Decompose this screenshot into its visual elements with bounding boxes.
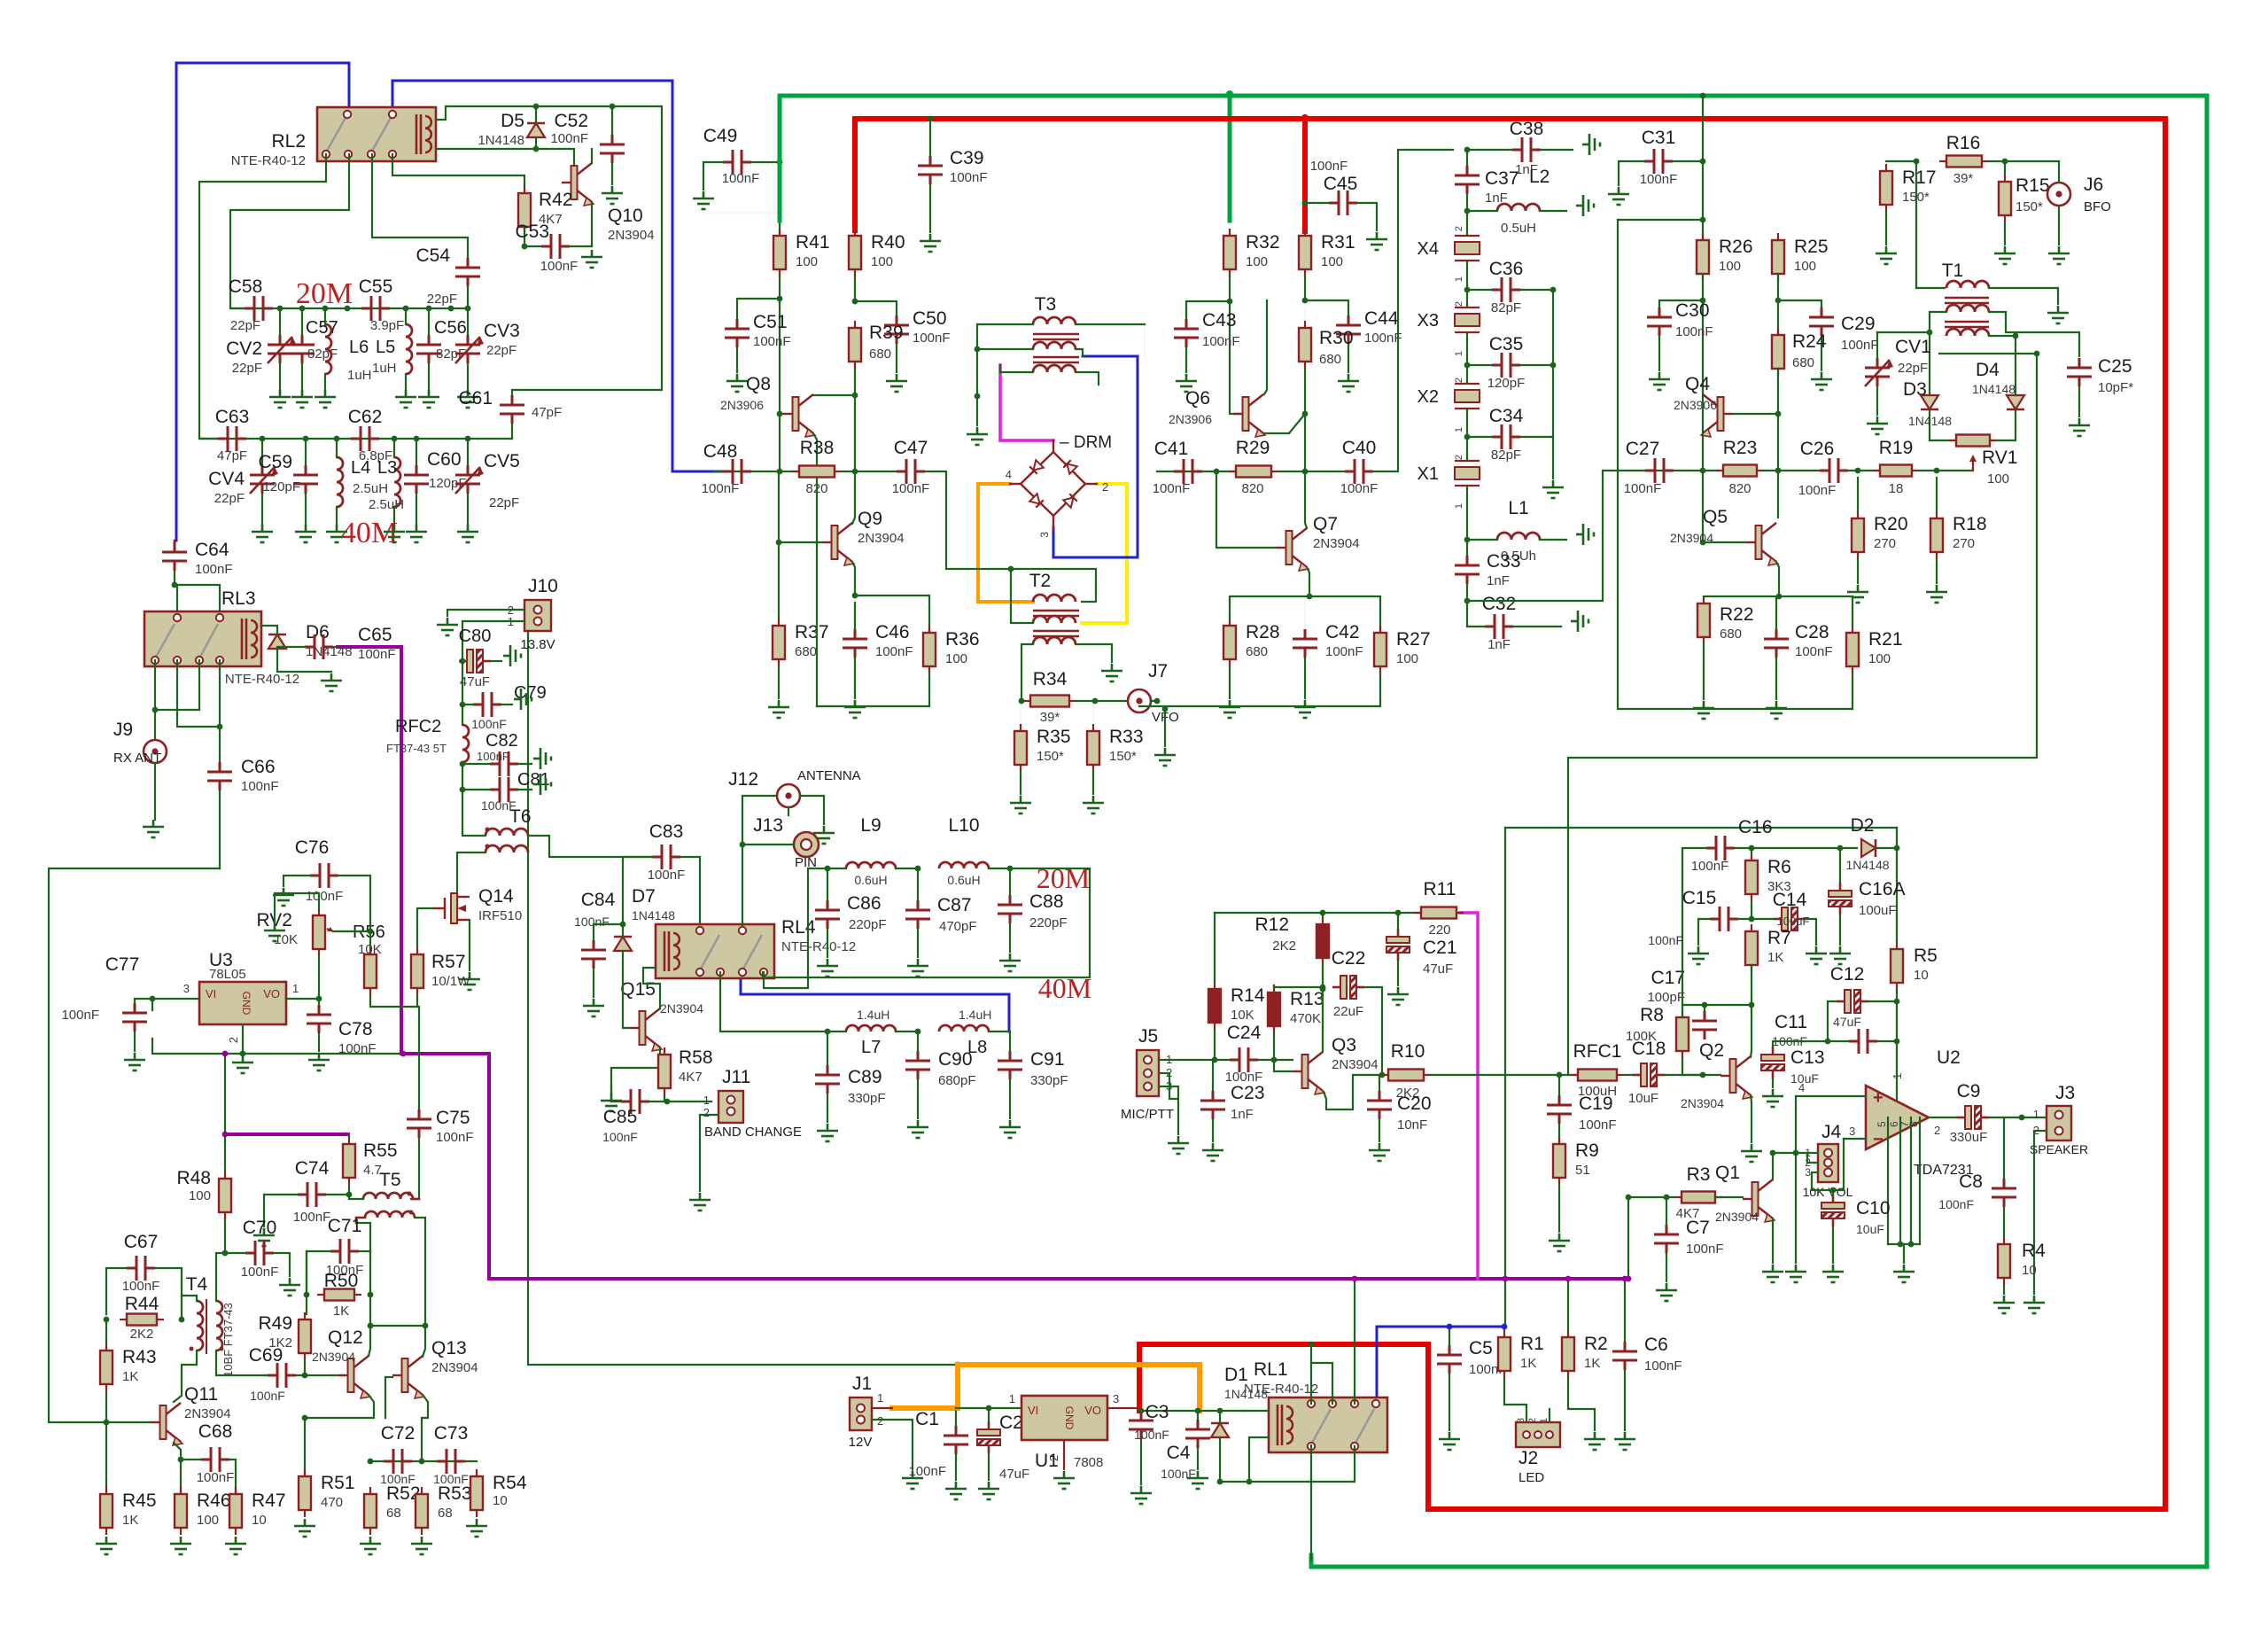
potentiometer RV1 xyxy=(1949,440,1956,441)
svg-text:L1: L1 xyxy=(1508,498,1528,518)
wire J10 pin2 to ground xyxy=(447,610,524,616)
diode D5 xyxy=(527,123,545,137)
svg-text:R26: R26 xyxy=(1719,237,1753,257)
svg-text:R2: R2 xyxy=(1584,1334,1608,1354)
resistor R6 xyxy=(1751,853,1752,860)
svg-text:470K: 470K xyxy=(1290,1011,1321,1026)
wire T3 middle left xyxy=(977,348,1033,350)
resistor R50 xyxy=(317,1294,324,1296)
svg-text:R13: R13 xyxy=(1290,989,1324,1009)
svg-text:2N3904: 2N3904 xyxy=(184,1406,231,1421)
wire R34 to J7 xyxy=(1076,700,1127,702)
svg-text:100nF: 100nF xyxy=(1798,483,1837,498)
grounds R45 R46 R47 xyxy=(96,1537,117,1554)
wire T3 middle right blue tap xyxy=(1076,349,1083,356)
wire C64 to RL3 pins xyxy=(175,585,220,613)
transformer T4 xyxy=(197,1301,203,1351)
svg-text:47uF: 47uF xyxy=(460,674,490,689)
svg-text:C76: C76 xyxy=(295,837,330,858)
wire R16 node to T1 xyxy=(1916,161,1945,288)
wire Q1 collector xyxy=(1773,1153,1796,1179)
resistor R33 xyxy=(1092,724,1094,731)
svg-text:330pF: 330pF xyxy=(1030,1073,1068,1088)
variable capacitor CV5 xyxy=(455,465,480,494)
resistor R29 xyxy=(1229,471,1236,472)
wire T2 bottom right to ground xyxy=(1076,644,1112,662)
svg-text:R7: R7 xyxy=(1767,928,1791,948)
svg-text:VO: VO xyxy=(263,987,280,1000)
svg-text:L5: L5 xyxy=(376,338,395,357)
svg-text:100nF: 100nF xyxy=(471,717,507,731)
wire Q10 collector xyxy=(591,149,593,163)
svg-text:220pF: 220pF xyxy=(849,917,887,932)
svg-text:47uF: 47uF xyxy=(1423,961,1453,977)
wire T1 middle winding leads xyxy=(1930,312,1946,332)
wire C47 right to T2 top xyxy=(925,471,1096,602)
svg-text:2N3906: 2N3906 xyxy=(1169,412,1212,426)
svg-text:J10: J10 xyxy=(528,576,558,596)
wire J5 pin2 PTT xyxy=(1159,1073,1178,1099)
svg-text:RFC2: RFC2 xyxy=(395,717,441,736)
svg-text:L10: L10 xyxy=(948,815,979,836)
wire Q9 base biasing from R38 node xyxy=(778,471,780,542)
svg-text:2N3904: 2N3904 xyxy=(1332,1057,1379,1072)
svg-text:68: 68 xyxy=(386,1506,401,1521)
svg-text:10BF FT37-43: 10BF FT37-43 xyxy=(221,1303,235,1377)
svg-text:10pF*: 10pF* xyxy=(2098,380,2133,395)
svg-text:1uH: 1uH xyxy=(372,361,397,376)
wire 13.8V rail from J10 xyxy=(528,631,958,1365)
svg-text:100: 100 xyxy=(1321,254,1343,269)
svg-text:Q12: Q12 xyxy=(328,1327,363,1348)
svg-text:C11: C11 xyxy=(1775,1012,1807,1032)
svg-text:22pF: 22pF xyxy=(427,292,457,307)
svg-text:C59: C59 xyxy=(258,452,292,472)
svg-text:RL3: RL3 xyxy=(221,588,256,609)
capacitor C48 xyxy=(723,459,751,484)
wire Q15 emitter to C85 ground xyxy=(611,1047,660,1095)
resistor R37 xyxy=(778,619,780,626)
svg-text:C49: C49 xyxy=(703,126,738,146)
svg-text:CV4: CV4 xyxy=(208,469,245,489)
diode D2 xyxy=(1861,839,1876,857)
wire T1 bottom winding left node xyxy=(1930,332,1946,336)
svg-text:C60: C60 xyxy=(427,449,462,470)
wire Q15 base xyxy=(623,974,630,1028)
svg-text:C2: C2 xyxy=(999,1413,1023,1433)
wire purple R48 R55 link xyxy=(225,1133,348,1136)
svg-text:Q9: Q9 xyxy=(858,509,882,529)
wire Q9 collector xyxy=(852,471,855,524)
capacitor C41 xyxy=(1174,459,1202,484)
wire C17 R8 top to Q2 collector xyxy=(1682,1004,1751,1006)
svg-text:10/1W: 10/1W xyxy=(431,974,470,989)
svg-text:680: 680 xyxy=(795,644,817,659)
svg-text:8: 8 xyxy=(1907,1121,1920,1127)
capacitor C61 xyxy=(500,395,524,424)
svg-text:R3: R3 xyxy=(1687,1164,1711,1185)
svg-text:C44: C44 xyxy=(1364,308,1399,329)
svg-text:330uF: 330uF xyxy=(1950,1130,1988,1145)
svg-text:C57: C57 xyxy=(306,318,338,338)
resistor R42 xyxy=(524,186,525,193)
wire C66 to ground rail xyxy=(219,790,221,868)
transistor Q9 xyxy=(832,525,838,559)
capacitor C27 xyxy=(1645,458,1674,483)
wire mic bias row xyxy=(1215,912,1460,914)
svg-text:4K7: 4K7 xyxy=(679,1070,703,1085)
svg-text:C68: C68 xyxy=(198,1421,233,1442)
wire R42 bottom xyxy=(524,227,540,246)
resistor R19 xyxy=(1873,470,1880,471)
svg-text:R44: R44 xyxy=(125,1294,159,1314)
ground T3 xyxy=(967,427,988,445)
resistor R39 xyxy=(854,321,856,328)
wire Q11 base xyxy=(106,1421,151,1423)
svg-text:100nF: 100nF xyxy=(1795,644,1833,659)
svg-text:R28: R28 xyxy=(1246,622,1280,642)
capacitor C8 xyxy=(1992,1179,2016,1207)
svg-text:2N3904: 2N3904 xyxy=(312,1350,355,1364)
svg-text:2N3904: 2N3904 xyxy=(608,228,655,243)
wire Q3 base xyxy=(1274,1060,1293,1071)
svg-text:C22: C22 xyxy=(1332,948,1366,969)
capacitor C62 xyxy=(351,426,379,451)
wire Q8 collector node xyxy=(813,394,855,396)
wire T3 bottom right xyxy=(1076,372,1099,385)
svg-text:0.6uH: 0.6uH xyxy=(947,873,980,887)
svg-text:D7: D7 xyxy=(632,886,656,907)
svg-text:CV1: CV1 xyxy=(1895,337,1931,357)
inductor RFC1 as resistor xyxy=(1571,1074,1578,1076)
wire T5 primary right xyxy=(413,1198,419,1201)
svg-text:C24: C24 xyxy=(1227,1023,1262,1043)
svg-text:1nF: 1nF xyxy=(1231,1107,1254,1122)
svg-text:C3: C3 xyxy=(1146,1402,1169,1422)
wire U3 ground row to purple junction xyxy=(152,1039,403,1054)
resistor R46 xyxy=(180,1487,182,1494)
wire U3 GND down xyxy=(242,1024,244,1054)
wire J12 to RL4 xyxy=(742,796,777,926)
svg-text:R29: R29 xyxy=(1236,438,1270,458)
inductor L8 xyxy=(939,1025,989,1031)
wire output caps row xyxy=(370,1460,477,1462)
wire C40 right to crystal filter xyxy=(1373,150,1453,471)
svg-text:Q1: Q1 xyxy=(1715,1163,1740,1183)
ground J9 xyxy=(143,820,164,837)
svg-text:100nF: 100nF xyxy=(875,644,913,659)
wire T3 left column xyxy=(976,324,978,425)
svg-text:GND: GND xyxy=(1063,1406,1076,1430)
transistor Q10 xyxy=(571,166,578,199)
svg-text:100nF: 100nF xyxy=(197,1470,235,1485)
wire J5 pin3 ground xyxy=(1159,1086,1178,1134)
svg-text:680: 680 xyxy=(1720,627,1742,642)
svg-text:Q5: Q5 xyxy=(1703,507,1728,527)
wire R24 bottom to Q5 collector xyxy=(1777,369,1779,518)
capacitor C90 xyxy=(905,1051,930,1079)
wire U3 VI xyxy=(152,999,199,1010)
svg-text:78L05: 78L05 xyxy=(209,967,246,982)
svg-text:NTE-R40-12: NTE-R40-12 xyxy=(781,939,856,954)
svg-text:R31: R31 xyxy=(1321,232,1355,253)
capacitor C65 xyxy=(305,634,333,659)
variable capacitor CV3 xyxy=(455,335,480,363)
svg-text:R43: R43 xyxy=(122,1347,157,1367)
capacitor C24 xyxy=(1230,1047,1258,1072)
svg-text:100nF: 100nF xyxy=(1691,859,1729,874)
ground Q10 emitter xyxy=(581,250,602,268)
svg-text:C6: C6 xyxy=(1644,1335,1668,1355)
svg-text:R36: R36 xyxy=(945,629,980,650)
svg-text:R16: R16 xyxy=(1946,133,1981,153)
svg-text:220: 220 xyxy=(1428,922,1450,938)
svg-text:1uH: 1uH xyxy=(347,368,372,383)
svg-text:270: 270 xyxy=(1874,536,1896,551)
wire Q10 emitter to ground xyxy=(591,202,593,246)
wire J13 to antenna node xyxy=(742,844,794,845)
svg-text:22pF: 22pF xyxy=(232,361,262,376)
svg-text:47pF: 47pF xyxy=(217,448,247,463)
capacitor C34 xyxy=(1492,424,1520,449)
inductor L9 xyxy=(846,862,896,868)
svg-text:3: 3 xyxy=(183,982,190,995)
grounds 40M filter xyxy=(252,525,273,542)
wire Q6 emitter to R30 xyxy=(1264,414,1305,433)
svg-text:100nF: 100nF xyxy=(1624,481,1662,496)
resistor R43 xyxy=(105,1343,107,1351)
svg-text:100nF: 100nF xyxy=(1325,644,1363,659)
capacitor C67 xyxy=(127,1256,155,1281)
svg-text:D6: D6 xyxy=(306,622,330,642)
svg-text:10: 10 xyxy=(493,1493,508,1508)
svg-text:100nF: 100nF xyxy=(950,170,988,185)
svg-text:82pF: 82pF xyxy=(1491,300,1521,315)
svg-text:BFO: BFO xyxy=(2084,199,2111,214)
svg-text:100nF: 100nF xyxy=(250,1389,285,1403)
svg-text:13.8V: 13.8V xyxy=(520,637,555,652)
capacitor C31 xyxy=(1644,149,1673,174)
wire Q6 collector to C44 node xyxy=(1264,300,1267,394)
wire R31 bottom node xyxy=(1304,276,1306,300)
diode D4 xyxy=(2007,395,2024,409)
wire R38 to C47 xyxy=(842,471,897,472)
svg-text:100nF: 100nF xyxy=(1579,1117,1617,1133)
wire J1 pin2 to ground xyxy=(872,1420,913,1469)
svg-text:100nF: 100nF xyxy=(1648,933,1683,947)
diode D3 xyxy=(1921,395,1938,409)
svg-text:RFC1: RFC1 xyxy=(1573,1041,1622,1062)
wire C48 row xyxy=(714,471,799,472)
diode D1 xyxy=(1211,1423,1229,1437)
wire RL2 pin to C54 xyxy=(372,154,468,258)
wire Q8 emitter down xyxy=(813,433,817,471)
svg-text:100nF: 100nF xyxy=(892,481,930,496)
svg-text:R8: R8 xyxy=(1640,1005,1664,1025)
transistor Q3 xyxy=(1302,1055,1309,1088)
svg-text:100: 100 xyxy=(1868,651,1891,666)
svg-text:C26: C26 xyxy=(1800,439,1835,459)
wire J12 right to ground xyxy=(800,796,824,824)
transistor Q6 2N3906 xyxy=(1243,397,1249,431)
capacitor C68 xyxy=(201,1447,229,1472)
svg-text:100nF: 100nF xyxy=(722,171,760,186)
svg-text:150*: 150* xyxy=(1037,749,1064,764)
capacitor C22 xyxy=(1332,986,1340,989)
svg-text:R40: R40 xyxy=(871,232,905,253)
svg-text:C39: C39 xyxy=(950,148,984,168)
wire R10 right to RFC1 xyxy=(1431,1074,1578,1076)
svg-text:C83: C83 xyxy=(649,821,684,842)
svg-text:Q8: Q8 xyxy=(746,374,771,394)
svg-text:RL1: RL1 xyxy=(1254,1359,1288,1380)
svg-text:150*: 150* xyxy=(1109,749,1137,764)
svg-text:100: 100 xyxy=(1246,254,1268,269)
svg-text:X2: X2 xyxy=(1417,387,1439,407)
capacitor C7 xyxy=(1654,1225,1679,1253)
wire Q7 base xyxy=(1216,471,1277,548)
wire D1 junction row xyxy=(1139,1410,1244,1412)
svg-text:100nF: 100nF xyxy=(1686,1242,1724,1257)
svg-text:NTE-R40-12: NTE-R40-12 xyxy=(1244,1382,1318,1397)
svg-text:C90: C90 xyxy=(938,1049,973,1070)
capacitor C6 xyxy=(1612,1342,1637,1370)
capacitor C71 xyxy=(330,1239,359,1264)
wire C41 row xyxy=(1157,471,1236,472)
wire RL3 pin2 jumper xyxy=(177,660,220,727)
svg-text:C37: C37 xyxy=(1485,168,1519,189)
resistor R1 xyxy=(1503,1330,1505,1337)
capacitor C84 xyxy=(581,940,606,969)
wire RL1 coil leads xyxy=(1244,1410,1269,1412)
op-amp U2 TDA7231 xyxy=(1866,1086,1929,1149)
svg-text:C52: C52 xyxy=(554,111,588,131)
inductor L3 xyxy=(394,457,400,507)
capacitor C29 xyxy=(1809,307,1834,336)
svg-text:T1: T1 xyxy=(1942,261,1964,281)
resistor R5 xyxy=(1896,942,1898,949)
resistor R58 xyxy=(664,1047,665,1055)
wire R36 bottom to C48 net xyxy=(816,479,818,706)
capacitor C32 xyxy=(1485,614,1513,639)
resistor R31 xyxy=(1304,229,1306,236)
svg-text:2: 2 xyxy=(877,1414,883,1428)
wire blue T3 to DRM pin3 xyxy=(1053,356,1138,557)
svg-text:51: 51 xyxy=(1575,1163,1590,1178)
svg-text:C82: C82 xyxy=(485,731,518,751)
wire R8 C17 row xyxy=(1682,1004,1751,1006)
svg-text:100nF: 100nF xyxy=(358,647,396,662)
svg-text:100: 100 xyxy=(1719,259,1741,274)
wire RL1 bottom pin1 to green trunk xyxy=(1310,1445,1312,1560)
relay RL2 xyxy=(317,107,436,161)
svg-text:C64: C64 xyxy=(195,540,229,560)
svg-text:1: 1 xyxy=(2033,1108,2039,1121)
resistor R55 xyxy=(348,1137,350,1144)
svg-text:82pF: 82pF xyxy=(307,346,338,362)
svg-text:5: 5 xyxy=(1876,1121,1888,1127)
svg-text:120pF: 120pF xyxy=(262,479,300,494)
wire R19 right node xyxy=(1919,470,1973,471)
svg-text:C36: C36 xyxy=(1489,259,1524,279)
wire blue antenna A xyxy=(176,63,349,541)
svg-text:22pF: 22pF xyxy=(230,318,260,333)
wire op amp pins 5 6 7 8 xyxy=(1887,1117,1889,1244)
svg-text:10uF: 10uF xyxy=(1628,1091,1658,1106)
resistor R40 xyxy=(854,229,856,236)
svg-text:2N3906: 2N3906 xyxy=(720,398,764,412)
resistor R4 xyxy=(2003,1237,2005,1244)
wire Q15 collector xyxy=(643,968,660,1008)
wire T1 top right to ground xyxy=(1989,288,2058,304)
svg-text:C30: C30 xyxy=(1675,300,1710,321)
capacitor C44 xyxy=(1336,315,1361,344)
wire TX 12V thick red trunk xyxy=(855,119,2165,1509)
svg-text:10uF: 10uF xyxy=(1856,1222,1884,1236)
svg-text:10: 10 xyxy=(252,1513,267,1528)
capacitor C14 xyxy=(1774,918,1782,921)
wire blue C5 R1 to RL1 xyxy=(1449,1326,1504,1328)
svg-text:2N3904: 2N3904 xyxy=(858,531,905,546)
svg-text:SPEAKER: SPEAKER xyxy=(2030,1142,2088,1156)
capacitor C85 xyxy=(621,1089,649,1114)
svg-text:100nF: 100nF xyxy=(1310,159,1348,174)
wire 13.8V drop to Q4 block xyxy=(1702,96,1704,240)
resistor R8 xyxy=(1682,1010,1683,1017)
wire R23 to C26 xyxy=(1764,470,1820,471)
wire C49 row to R41 xyxy=(779,162,781,221)
svg-text:C91: C91 xyxy=(1030,1049,1065,1070)
capacitor C53 xyxy=(541,234,570,259)
svg-text:1N4148: 1N4148 xyxy=(1972,382,2016,396)
svg-text:1: 1 xyxy=(877,1391,883,1405)
connector J2 LED xyxy=(1516,1422,1560,1447)
svg-text:NTE-R40-12: NTE-R40-12 xyxy=(231,153,306,168)
svg-text:L6: L6 xyxy=(349,338,369,357)
svg-text:CV3: CV3 xyxy=(484,321,520,341)
grounds 20M filter xyxy=(269,390,291,408)
svg-text:100nF: 100nF xyxy=(293,1210,331,1225)
inductor L1 xyxy=(1497,533,1540,540)
svg-text:C43: C43 xyxy=(1202,310,1237,331)
svg-text:R45: R45 xyxy=(122,1491,157,1511)
grounds audio output xyxy=(294,1519,315,1537)
svg-text:2N3904: 2N3904 xyxy=(1681,1096,1724,1110)
resistor R28 xyxy=(1229,619,1231,626)
wire J7 tap xyxy=(1151,700,1157,702)
svg-text:100nF: 100nF xyxy=(648,868,686,883)
svg-text:100nF: 100nF xyxy=(306,889,344,904)
svg-text:Q2: Q2 xyxy=(1699,1040,1724,1061)
wire thick red branch to R31 xyxy=(1302,118,1308,231)
wire 40M filter row xyxy=(199,438,512,440)
wire 20M out to band select xyxy=(763,868,1090,977)
svg-text:R51: R51 xyxy=(321,1473,355,1493)
svg-text:1N4148: 1N4148 xyxy=(632,908,675,922)
svg-text:10K VOL: 10K VOL xyxy=(1803,1185,1853,1199)
wire C1 C2 to U1 VI xyxy=(956,1407,1021,1409)
capacitor C55 xyxy=(361,296,390,321)
svg-text:C65: C65 xyxy=(358,625,392,645)
wire blue RL4 to L8 xyxy=(741,972,1009,1031)
svg-text:Q7: Q7 xyxy=(1313,514,1338,534)
svg-text:T2: T2 xyxy=(1029,571,1052,591)
svg-text:20M: 20M xyxy=(1037,862,1090,894)
svg-text:1.4uH: 1.4uH xyxy=(857,1008,889,1022)
capacitor C49 xyxy=(723,150,751,175)
svg-text:22pF: 22pF xyxy=(1898,361,1928,376)
svg-text:+: + xyxy=(1873,1088,1884,1108)
